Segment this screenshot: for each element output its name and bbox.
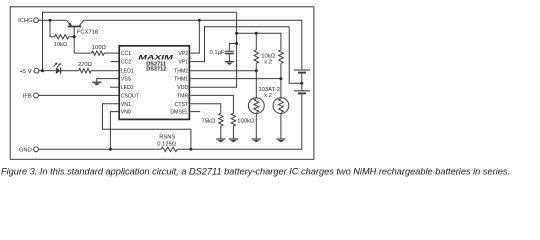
resistor R5 10k pullup right zigzag <box>279 50 283 64</box>
ground 75k <box>216 138 225 140</box>
node junction VDD/pullup supply <box>235 32 238 35</box>
svg-text:CC1: CC1 <box>121 51 131 57</box>
wire right pullup to THM1 node <box>280 63 282 78</box>
LED D1 arrow 2 <box>57 64 60 67</box>
wire CC2 stub <box>111 61 119 63</box>
svg-text:VDD: VDD <box>177 85 188 91</box>
wire DMSEL stub <box>191 111 201 113</box>
node junction THM1 <box>279 77 282 80</box>
wire VDD riser to +5V rail <box>191 12 237 87</box>
svg-text:100Ω: 100Ω <box>92 45 107 51</box>
node junction VP2/ICHG <box>198 19 201 22</box>
wire THM1 node to thermistor 2 <box>280 79 282 98</box>
ground 100k <box>229 138 238 140</box>
svg-text:10kΩ: 10kΩ <box>54 42 68 48</box>
node junction VDD/cap <box>235 42 238 45</box>
wire +5V riser and top rail <box>43 12 237 70</box>
svg-text:THM2: THM2 <box>174 69 188 75</box>
wire left pullup drop <box>255 33 257 50</box>
resistor R2 100ohm zigzag <box>92 51 105 55</box>
wire border loop <box>10 7 314 160</box>
op-amp U1 DS2711 IC body <box>119 46 189 120</box>
wire +5V rail <box>39 70 43 72</box>
wire THM2 node to thermistor 1 <box>255 71 257 98</box>
svg-text:VN1: VN1 <box>121 102 131 108</box>
thermistor RT1 zigzag <box>254 99 259 113</box>
thermistor RT1 circle <box>248 98 264 114</box>
resistor R4 10k pullup left zigzag <box>254 50 258 64</box>
svg-text:VN0: VN0 <box>121 110 131 116</box>
node junction VN1/GND <box>189 148 192 151</box>
wire THM1 to thermistor 2 <box>191 78 281 80</box>
wire collector to battery top <box>84 20 302 70</box>
wire GND rail right to battery <box>177 94 302 149</box>
wire IFB to CSOUT <box>38 94 118 96</box>
node junction base/10k <box>73 35 76 38</box>
wire TMR to 100k <box>191 95 234 113</box>
svg-text:10kΩ: 10kΩ <box>261 53 275 59</box>
transistor Q1 base bar <box>68 26 82 28</box>
svg-text:75kΩ: 75kΩ <box>202 118 216 124</box>
transistor Q1 emitter <box>67 20 71 26</box>
svg-text:DMSEL: DMSEL <box>170 110 188 116</box>
node junction +5V <box>41 69 44 72</box>
svg-text:FCX718: FCX718 <box>77 30 98 36</box>
wire cap to ground <box>228 54 230 62</box>
wire 100k to ground <box>232 126 234 139</box>
wire THM2 to thermistor 1 <box>191 70 257 72</box>
transistor Q1 collector <box>79 20 84 26</box>
svg-text:ICHG: ICHG <box>18 18 33 24</box>
wire CTST to 75k <box>191 104 221 113</box>
wire LED to 270ohm <box>61 70 79 72</box>
svg-text:x 2: x 2 <box>264 60 272 66</box>
svg-text:CSOUT: CSOUT <box>121 93 140 99</box>
capacitor C1 bottom plate <box>225 53 234 55</box>
node junction VN0/GND <box>109 148 112 151</box>
LED D1 arrow 1 <box>54 64 57 67</box>
svg-text:Figure 3. In this standard app: Figure 3. In this standard application c… <box>1 165 510 176</box>
capacitor C1 top plate <box>225 50 234 52</box>
svg-text:LED2: LED2 <box>121 85 134 91</box>
node junction pullup left <box>255 32 258 35</box>
wire pullup supply <box>237 33 281 50</box>
svg-text:DS2712: DS2712 <box>146 67 166 73</box>
svg-text:VP2: VP2 <box>178 51 188 57</box>
LED D1 cathode bar <box>60 68 62 74</box>
ground VSS <box>92 81 101 83</box>
transistor Q1 base wire <box>73 27 75 54</box>
resistor R6 75k zigzag <box>219 113 223 126</box>
ground thermistor 2 <box>276 138 285 140</box>
node junction VP1/battery <box>300 82 303 85</box>
transistor Q1 emitter arrow <box>68 22 72 26</box>
resistor RSNS zigzag <box>161 147 177 151</box>
wire 270ohm to LED1 pin <box>91 70 118 72</box>
svg-text:GND: GND <box>19 147 32 153</box>
node IFB terminal <box>34 93 39 98</box>
wire cap tap <box>229 44 236 52</box>
ground thermistor 1 <box>252 138 261 140</box>
battery B1 cell1 short plate <box>298 72 306 74</box>
ground capacitor <box>225 61 234 63</box>
svg-text:270Ω: 270Ω <box>78 62 93 68</box>
wire VSS pin to ground <box>97 79 119 82</box>
svg-text:RSNS: RSNS <box>159 134 175 140</box>
node junction THM2 <box>255 69 258 72</box>
svg-text:0.1µF: 0.1µF <box>210 50 225 56</box>
svg-text:+5 V: +5 V <box>20 69 32 75</box>
wire VP2 to ICHG line <box>191 20 200 53</box>
wire GND rail left <box>38 148 161 150</box>
wire between cells <box>301 73 303 91</box>
resistor R7 100k zigzag <box>231 113 235 126</box>
svg-text:VSS: VSS <box>121 77 132 83</box>
wire thermistor 1 to ground <box>255 114 257 139</box>
thermistor RT2 circle <box>273 98 289 114</box>
svg-text:100kΩ: 100kΩ <box>237 118 255 124</box>
wire left pullup to THM2 node <box>255 63 257 70</box>
resistor R3 270ohm zigzag <box>79 69 91 73</box>
svg-text:TMR: TMR <box>177 93 188 99</box>
svg-text:IFB: IFB <box>23 93 32 99</box>
resistor R1 10k zigzag <box>55 35 69 39</box>
wire base to 100ohm <box>74 52 91 54</box>
wire 75k to ground <box>220 126 222 139</box>
thermistor RT2 zigzag <box>279 99 284 113</box>
node junction ICHG/10k <box>49 19 52 22</box>
wire LED2 stub <box>110 86 119 88</box>
node ICHG terminal <box>34 18 39 23</box>
wire ICHG to transistor emitter <box>38 19 66 21</box>
svg-text:THM1: THM1 <box>174 77 188 83</box>
battery B1 cell1 long plate <box>294 69 310 71</box>
wire VN1 around RSNS <box>103 104 191 150</box>
svg-text:CC2: CC2 <box>121 60 131 66</box>
wire ICHG down to 10k <box>50 20 55 37</box>
LED D1 triangle <box>56 67 61 74</box>
svg-text:MAXIM: MAXIM <box>138 54 174 61</box>
battery B2 cell2 long plate <box>294 90 310 92</box>
wire VN0 to GND <box>110 112 118 150</box>
svg-text:LED1: LED1 <box>121 69 134 75</box>
svg-text:VP1: VP1 <box>178 60 188 66</box>
wire thermistor 2 to ground <box>280 114 282 139</box>
node GND terminal <box>34 147 39 152</box>
node +5V terminal <box>34 68 39 73</box>
wire +5V to LED <box>43 70 56 72</box>
wire 100ohm to CC1 <box>104 52 118 54</box>
wire 10k to base <box>69 36 74 38</box>
wire VP1 to battery mid <box>191 27 302 83</box>
svg-text:CTST: CTST <box>175 102 189 108</box>
svg-text:0.125Ω: 0.125Ω <box>157 141 177 147</box>
battery B2 cell2 short plate <box>298 92 306 94</box>
svg-text:x 2: x 2 <box>264 93 272 99</box>
